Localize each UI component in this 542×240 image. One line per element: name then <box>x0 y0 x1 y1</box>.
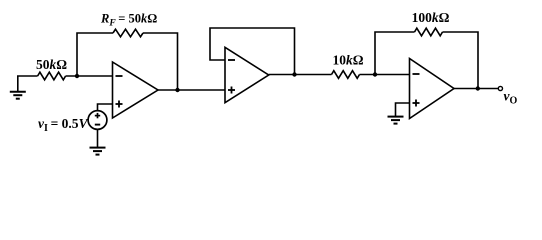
wire U2 output <box>269 74 332 76</box>
ground U3 <box>388 117 404 124</box>
wire U3 output <box>454 88 498 90</box>
node U1 output junction dot <box>175 88 179 92</box>
svg-text:50kΩ: 50kΩ <box>36 57 67 72</box>
resistor RF feedback <box>113 29 143 37</box>
resistor 100k feedback <box>415 28 443 36</box>
wire U2 follower feedback loop <box>210 28 295 75</box>
op-amp U2 <box>225 47 269 102</box>
node B junction dot <box>373 72 377 76</box>
wire 100k feedback left riser <box>375 32 415 75</box>
resistor 10k series <box>332 71 360 79</box>
node U2 output junction dot <box>292 72 296 76</box>
svg-text:vI = 0.5V: vI = 0.5V <box>38 116 89 134</box>
svg-text:vO: vO <box>504 89 518 107</box>
svg-text:10kΩ: 10kΩ <box>332 53 363 68</box>
wire feedback left riser <box>77 33 113 76</box>
wire U1 noninverting stub <box>98 104 113 111</box>
node A junction dot <box>75 74 79 78</box>
op-amp U3 <box>410 59 455 119</box>
svg-text:RF = 50kΩ: RF = 50kΩ <box>100 12 157 29</box>
ground left input <box>10 76 38 99</box>
wire resistor to inverting input <box>66 75 113 77</box>
wire 10k to U3 inverting input <box>360 74 410 76</box>
ground under source <box>90 148 106 155</box>
terminal vO open circle <box>498 86 502 90</box>
wire source to ground <box>97 129 99 147</box>
op-amp U1 <box>113 62 159 118</box>
wire feedback right down to U1 output <box>143 33 178 90</box>
wire U3 noninverting stub to ground <box>396 103 410 117</box>
resistor 50k input <box>38 72 66 80</box>
svg-text:100kΩ: 100kΩ <box>412 10 450 25</box>
voltage source v1 <box>88 111 107 130</box>
wire 100k feedback right down to U3 output <box>443 32 479 89</box>
wire U1 output to U2 <box>158 89 225 91</box>
node U3 output junction dot <box>476 86 480 90</box>
